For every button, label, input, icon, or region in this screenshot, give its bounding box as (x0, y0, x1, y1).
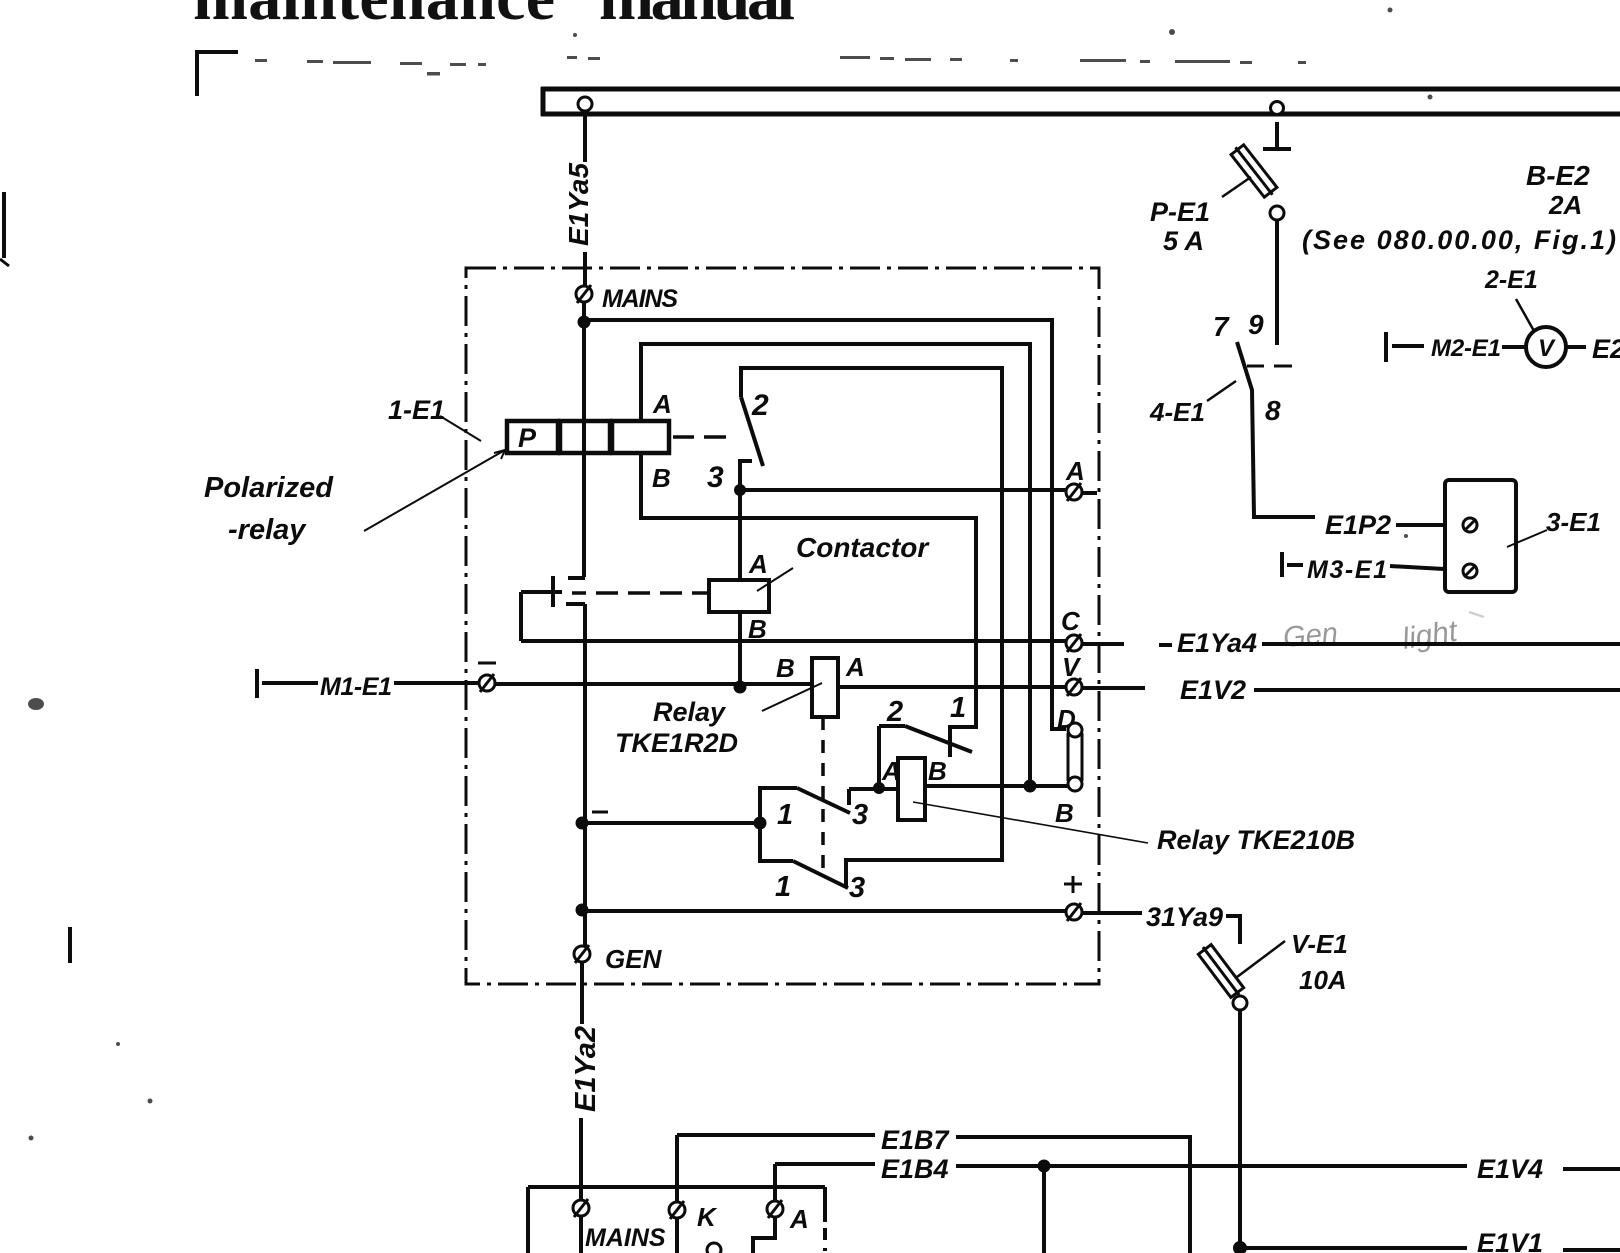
svg-text:2-E1: 2-E1 (1484, 266, 1538, 294)
svg-text:9: 9 (1248, 309, 1264, 340)
svg-text:E1B7: E1B7 (881, 1125, 951, 1155)
svg-text:Relay TKE210B: Relay TKE210B (1157, 825, 1355, 855)
svg-text:E2: E2 (1592, 334, 1620, 364)
svg-text:5 A: 5 A (1163, 226, 1204, 256)
svg-text:7: 7 (1213, 311, 1230, 342)
svg-text:A: A (748, 549, 768, 579)
svg-text:31Ya9: 31Ya9 (1146, 902, 1223, 932)
svg-text:10A: 10A (1299, 965, 1347, 995)
svg-text:A: A (845, 652, 865, 682)
svg-text:1-E1: 1-E1 (388, 395, 445, 425)
svg-text:Relay: Relay (653, 697, 727, 727)
svg-text:A: A (1065, 456, 1085, 486)
svg-text:MAINS: MAINS (602, 285, 678, 313)
svg-text:V-E1: V-E1 (1291, 929, 1348, 959)
svg-text:-relay: -relay (228, 514, 307, 546)
svg-text:E1V4: E1V4 (1477, 1154, 1543, 1184)
svg-text:A: A (789, 1204, 809, 1234)
svg-text:B: B (928, 756, 947, 786)
svg-text:B: B (1055, 798, 1074, 828)
svg-text:B: B (748, 614, 767, 644)
svg-text:1: 1 (775, 871, 791, 903)
svg-text:8: 8 (1265, 395, 1281, 426)
svg-text:M3-E1: M3-E1 (1307, 556, 1387, 584)
svg-text:2: 2 (751, 389, 769, 422)
svg-text:A: A (881, 756, 901, 786)
svg-text:V: V (1538, 335, 1556, 362)
svg-text:maintenance: maintenance (193, 0, 555, 34)
svg-text:Gen: Gen (1282, 617, 1339, 654)
svg-text:manual: manual (599, 0, 795, 34)
svg-text:E1Ya4: E1Ya4 (1177, 628, 1257, 658)
svg-text:E1Ya2: E1Ya2 (570, 1026, 602, 1112)
svg-text:B: B (652, 463, 671, 493)
svg-text:V: V (1062, 652, 1082, 682)
svg-text:B: B (776, 653, 795, 683)
svg-text:1: 1 (950, 692, 966, 724)
svg-text:P-E1: P-E1 (1150, 197, 1210, 227)
svg-text:2A: 2A (1548, 190, 1582, 220)
svg-text:MAINS: MAINS (585, 1224, 666, 1252)
svg-text:K: K (697, 1202, 718, 1232)
svg-text:E1V1: E1V1 (1477, 1228, 1543, 1253)
svg-text:C: C (1061, 606, 1081, 636)
svg-text:TKE1R2D: TKE1R2D (615, 728, 738, 758)
svg-text:M1-E1: M1-E1 (320, 673, 392, 701)
svg-text:P: P (518, 423, 537, 453)
svg-text:Polarized: Polarized (204, 472, 334, 504)
svg-text:E1V2: E1V2 (1180, 675, 1246, 705)
svg-text:E1Ya5: E1Ya5 (563, 163, 594, 246)
svg-text:1: 1 (777, 799, 793, 831)
svg-text:Contactor: Contactor (796, 532, 930, 563)
svg-text:3-E1: 3-E1 (1546, 507, 1601, 537)
svg-text:E1P2: E1P2 (1325, 510, 1391, 540)
svg-text:A: A (652, 389, 672, 419)
svg-text:3: 3 (849, 872, 865, 904)
svg-text:D: D (1057, 704, 1076, 734)
svg-text:B-E2: B-E2 (1526, 160, 1590, 191)
svg-text:2: 2 (886, 696, 903, 728)
svg-text:M2-E1: M2-E1 (1431, 335, 1501, 362)
svg-text:3: 3 (707, 461, 724, 494)
svg-text:GEN: GEN (605, 944, 663, 974)
svg-text:4-E1: 4-E1 (1149, 397, 1205, 427)
svg-text:(See 080.00.00, Fig.1): (See 080.00.00, Fig.1) (1302, 225, 1616, 255)
svg-text:E1B4: E1B4 (881, 1154, 949, 1184)
svg-text:3: 3 (852, 799, 868, 831)
